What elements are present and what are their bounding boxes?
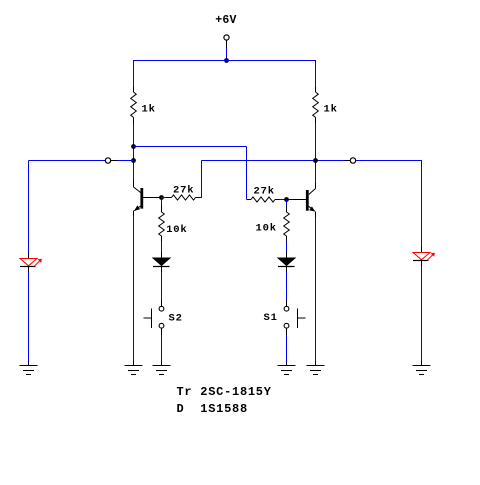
junction left base <box>159 195 164 200</box>
terminal circle right output <box>350 158 355 163</box>
wire left LED drop <box>28 161 30 254</box>
terminal circle left output <box>105 158 110 163</box>
svg-text:1k: 1k <box>142 104 156 116</box>
ground right emitter <box>307 361 325 375</box>
wire left 10k to diode <box>161 242 163 253</box>
resistor 27k left <box>166 195 200 200</box>
wire cross-coupling top (left collector to right base) <box>134 146 247 148</box>
wire left cross vertical <box>201 161 203 199</box>
wire right base drop <box>286 200 288 206</box>
terminal left pin stub <box>111 160 117 162</box>
ground right LED <box>413 361 431 375</box>
ground left LED <box>20 361 38 375</box>
junction left collector upper <box>131 144 136 149</box>
wire left base drop <box>161 198 163 206</box>
svg-text:+6V: +6V <box>215 14 236 27</box>
power terminal +6V <box>224 35 229 40</box>
terminal right pin stub <box>345 160 351 162</box>
svg-text:27k: 27k <box>254 186 275 198</box>
wire right collector middle <box>315 123 317 183</box>
diode D right (1S1588) <box>278 252 295 272</box>
svg-text:S2: S2 <box>169 313 183 325</box>
svg-text:10k: 10k <box>256 223 277 235</box>
wire right output segment <box>356 160 422 162</box>
switch S2 <box>144 300 164 336</box>
resistor 27k right <box>247 197 281 202</box>
wire left 27k to cross vertical <box>200 197 202 199</box>
diode D left (1S1588) <box>153 252 170 272</box>
wire left LED to ground <box>28 272 30 361</box>
wire right diode to switch <box>286 272 288 300</box>
wire left base to 27k <box>162 197 167 199</box>
transistor Q2 right (2SC-1815Y) <box>287 183 316 218</box>
wire +6V rail <box>134 60 316 62</box>
wire power drop <box>226 48 228 61</box>
wire cross-coupling bottom (to right collector and output) <box>202 160 345 162</box>
power pin stub <box>226 40 228 48</box>
svg-text:Tr 2SC-1815Y: Tr 2SC-1815Y <box>177 385 272 399</box>
wire right 10k to diode <box>286 242 288 253</box>
junction right base <box>284 197 289 202</box>
LED left <box>20 253 42 272</box>
svg-text:D 1S1588: D 1S1588 <box>177 402 248 416</box>
wire right 27k to base <box>280 199 287 201</box>
svg-text:1k: 1k <box>324 104 338 116</box>
wire right LED to ground <box>421 266 423 361</box>
wire right collector upper <box>315 60 317 87</box>
wire left emitter to ground <box>133 216 135 362</box>
wire S1 to ground <box>286 335 288 361</box>
wire right emitter to ground <box>315 218 317 362</box>
ground S1 <box>278 361 296 375</box>
transistor Q1 left (2SC-1815Y, mirrored) <box>134 180 162 216</box>
wire terminal to left collector <box>117 160 134 162</box>
switch S1 <box>284 300 305 336</box>
junction power rail <box>224 58 229 63</box>
ground left emitter <box>125 361 143 375</box>
resistor 1k right <box>313 87 319 123</box>
wire left diode to switch <box>161 272 163 300</box>
wire right LED drop <box>421 161 423 248</box>
wire left output segment <box>29 160 106 162</box>
wire left collector middle <box>133 123 135 180</box>
resistor 10k right <box>284 206 290 242</box>
wire S2 to ground <box>161 335 163 361</box>
resistor 10k left <box>159 206 165 242</box>
LED right <box>413 247 435 266</box>
junction left collector lower <box>131 158 136 163</box>
wire right cross vertical <box>246 147 248 200</box>
junction right collector <box>313 158 318 163</box>
svg-text:10k: 10k <box>166 224 187 236</box>
svg-text:S1: S1 <box>264 312 278 324</box>
svg-text:27k: 27k <box>173 185 194 197</box>
ground S2 <box>153 361 171 375</box>
resistor 1k left <box>131 87 137 123</box>
wire left collector upper <box>133 60 135 87</box>
